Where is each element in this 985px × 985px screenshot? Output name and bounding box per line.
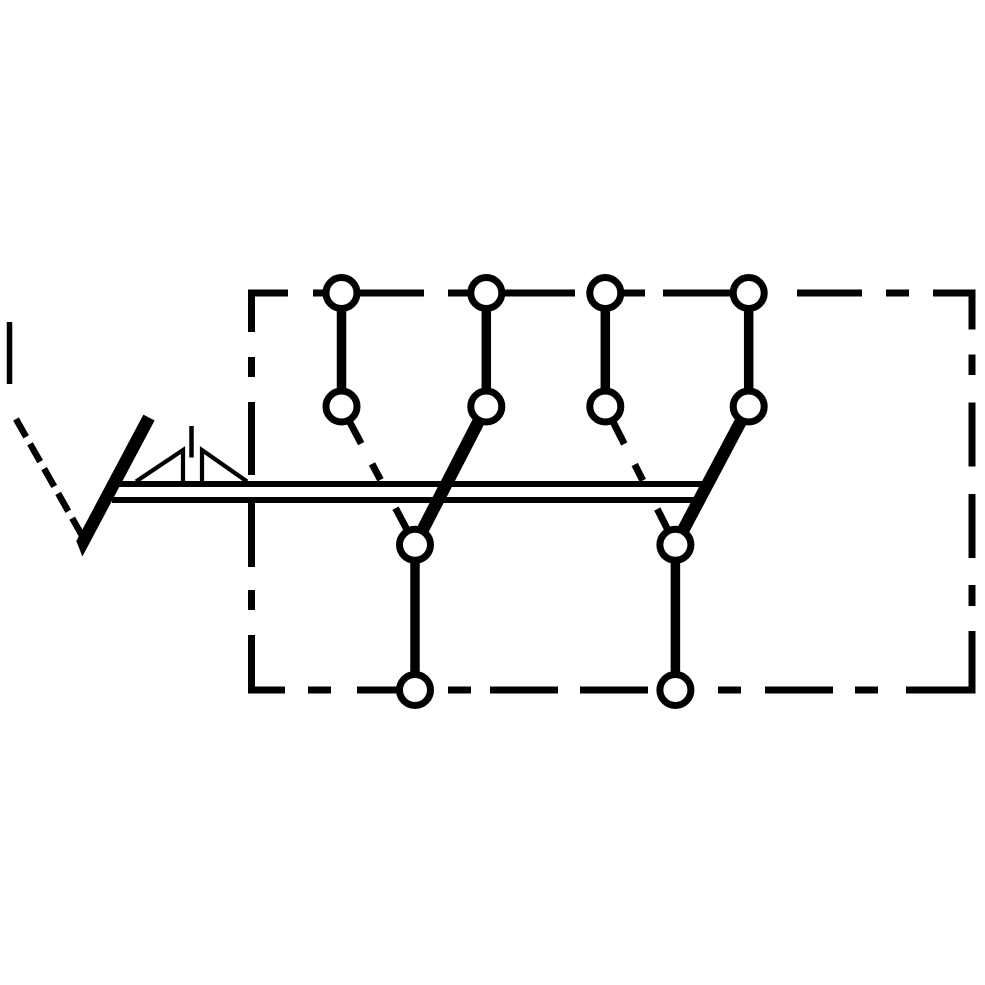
wire: stem terminal 3 to pivot 3 [601,293,611,407]
actuator travel end tick (top left) [7,322,13,384]
open contact arm pole 1 (stub + dashed alternate position) [342,407,412,540]
wire: stem terminal 1 to pivot 1 [337,293,347,407]
wire: stem terminal 2 to pivot 2 [482,293,492,407]
enclosure dashed border: left edge [248,290,255,694]
enclosure dashed border: right edge [969,290,976,694]
pivot contact 4 [733,391,764,422]
wire: stem common contact A to bottom terminal 5 [410,545,420,690]
detent / latching mechanism symbol (two triangles) [136,450,247,482]
terminal 1 [326,278,357,309]
common contact B [660,529,691,560]
open contact arm pole 3 (stub + dashed alternate position) [605,407,673,541]
enclosure dashed border: top edge [248,290,976,297]
closed contact arm A (pivot 2 to common A) [415,407,486,545]
enclosure dashed border: bottom edge [248,687,976,694]
wire: stem common contact B to bottom terminal 6 [671,545,681,690]
common contact A [400,529,431,560]
pivot contact 3 [590,391,621,422]
closed contact arm B (pivot 4 to common B) [675,407,748,545]
pivot contact 1 [326,391,357,422]
terminal 4 [733,278,764,309]
bottom terminal 6 [660,675,691,706]
actuator lever (solid position) [76,415,154,557]
detent symbol center tick [189,426,194,458]
mechanical linkage bar (double line), top line [114,481,706,487]
bottom terminal 5 [400,675,431,706]
pivot contact 2 [471,391,502,422]
mechanical linkage bar (double line), bottom line [112,497,694,503]
terminal 3 [590,278,621,309]
terminal 2 [471,278,502,309]
wire: stem terminal 4 to pivot 4 [744,293,754,407]
actuator lever alternate position (dashed) [16,419,82,536]
